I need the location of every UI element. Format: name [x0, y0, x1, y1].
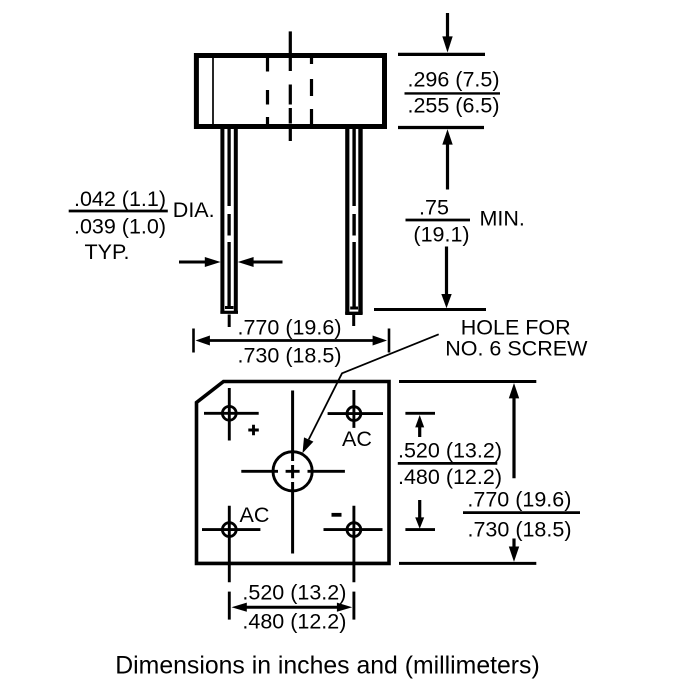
- body size arrow down: [512, 539, 515, 547]
- lead L2 left wall: [345, 127, 349, 314]
- lead L2 tick below: [352, 315, 355, 326]
- extension tick right (.770 width): [388, 329, 391, 353]
- lead L2 bottom cap: [345, 312, 362, 315]
- body inner edge line: [212, 58, 214, 124]
- svg-text:.730 (18.5): .730 (18.5): [468, 518, 572, 542]
- extension line bottom-right column: [352, 592, 355, 620]
- fraction bar .520/.480 right: [398, 462, 498, 465]
- lead L1 bottom cap: [220, 311, 238, 314]
- svg-text:DIA.: DIA.: [173, 198, 215, 222]
- svg-text:AC: AC: [342, 427, 372, 451]
- extension line square top right: [399, 380, 536, 383]
- mounting hole: [273, 452, 312, 491]
- centerline inside body (dashed): [289, 56, 292, 124]
- svg-text:.480 (12.2): .480 (12.2): [398, 465, 502, 489]
- svg-text:.520 (13.2): .520 (13.2): [242, 581, 346, 605]
- extension line body top: [398, 53, 485, 56]
- lead length arrow bottom (down): [445, 247, 448, 296]
- fraction bar .75/(19.1): [406, 219, 471, 222]
- pin P1 cross: [204, 388, 259, 441]
- extension line bottom-left column: [228, 592, 231, 620]
- lead L2 inner centerline: [352, 129, 355, 307]
- svg-text:.042 (1.1): .042 (1.1): [74, 187, 166, 211]
- leader line to hole: [309, 334, 439, 439]
- body height arrow bottom (up): [446, 144, 449, 190]
- body size arrow up: [512, 398, 515, 478]
- lead width arrow right: [252, 261, 283, 264]
- extension tick pin row top: [405, 412, 435, 415]
- svg-text:AC: AC: [240, 503, 270, 527]
- svg-text:.770 (19.6): .770 (19.6): [238, 315, 342, 339]
- svg-text:.520 (13.2): .520 (13.2): [398, 438, 502, 462]
- width dimension arrow line: [208, 339, 374, 342]
- pin P2 (top-right) circle: [347, 407, 361, 421]
- svg-text:.255 (6.5): .255 (6.5): [407, 94, 499, 118]
- lead L1 left wall: [220, 127, 224, 314]
- hole vertical centerline: [291, 391, 294, 554]
- pin spacing arrow line bottom: [245, 606, 338, 609]
- fraction bar .296/.255: [405, 92, 501, 94]
- svg-text:NO. 6 SCREW: NO. 6 SCREW: [445, 336, 588, 360]
- lead width arrow left: [179, 261, 206, 264]
- fraction bar .042/.039: [69, 210, 168, 213]
- pin P3 cross: [202, 506, 260, 583]
- minus label: [332, 513, 342, 517]
- package body outline (side view): [196, 56, 384, 127]
- svg-text:.75: .75: [419, 196, 449, 220]
- pin P3 (bottom-left) circle: [222, 523, 236, 537]
- extension tick pin row bottom: [405, 528, 435, 531]
- extension line body bottom: [398, 126, 484, 129]
- lead L2 right wall: [358, 127, 362, 314]
- hole horizontal centerline: [241, 470, 345, 473]
- svg-text:.730 (18.5): .730 (18.5): [238, 344, 342, 368]
- body height arrow top (down): [446, 13, 449, 37]
- bottom view outline with chamfer: [197, 382, 390, 564]
- lead L1 tick below: [228, 315, 231, 328]
- pin P1 (top-left) circle: [222, 406, 236, 420]
- lead L1 inner centerline: [227, 129, 230, 307]
- lead L1 inner bottom bar: [225, 306, 234, 309]
- svg-text:.039 (1.0): .039 (1.0): [74, 214, 166, 238]
- pin spacing arrow down: [418, 500, 421, 518]
- svg-text:.770 (19.6): .770 (19.6): [467, 488, 571, 512]
- extension line square bottom right: [399, 562, 536, 565]
- pin P4 (bottom-right) circle: [347, 523, 361, 537]
- centerline below body: [289, 127, 292, 142]
- svg-text:Dimensions in inches and (mill: Dimensions in inches and (millimeters): [115, 653, 539, 680]
- lead L2 inner bottom bar: [350, 307, 358, 310]
- leader arrowhead: [303, 437, 314, 453]
- hidden line right: [310, 57, 313, 125]
- svg-text:.480 (12.2): .480 (12.2): [242, 610, 346, 634]
- lead L1 right wall: [234, 127, 238, 314]
- pin P4 cross: [324, 506, 383, 583]
- plus label: [248, 425, 258, 436]
- extension line lead ends: [374, 308, 486, 311]
- svg-text:(19.1): (19.1): [413, 222, 469, 246]
- svg-text:.296 (7.5): .296 (7.5): [407, 68, 499, 92]
- svg-text:MIN.: MIN.: [480, 207, 525, 231]
- hidden line left: [266, 57, 269, 125]
- pin P2 cross: [328, 390, 383, 428]
- extension tick left (.770 width): [192, 329, 195, 353]
- pin spacing arrow up: [418, 427, 421, 438]
- centerline above body: [289, 31, 292, 54]
- svg-text:TYP.: TYP.: [84, 240, 129, 264]
- fraction bar .770/.730 right: [463, 511, 580, 514]
